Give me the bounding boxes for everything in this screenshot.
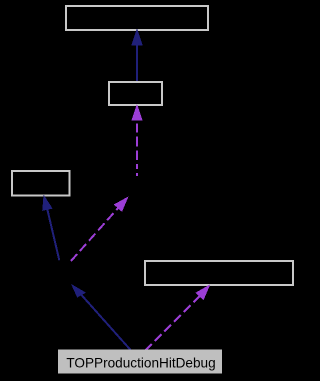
usage arrow into B2 (dashed darkorchid, upper part with arrowhead) [131,104,142,176]
class box B2 (second base class) [109,82,162,105]
usage arrow mid segment toward label point (dashed darkorchid) [71,196,129,261]
class box B3 (left base class) [12,171,70,196]
svg-text:TOPProductionHitDebug: TOPProductionHitDebug [66,355,215,370]
inheritance arrow B2 to B1 (solid midnightblue) [131,28,143,81]
node TOPProductionHitDebug (current class, grey filled) [58,350,222,374]
class box B4 (right used class) [145,261,293,285]
inheritance arrow segment into B3 (solid midnightblue) [42,195,59,261]
usage arrow from TOPProductionHitDebug to B4 (dashed darkorchid) [145,284,210,351]
class box B1 (top base class, transparent fill) [66,6,208,30]
inheritance arrow segment from TOPProductionHitDebug (solid midnightblue, lower part) [71,284,131,351]
